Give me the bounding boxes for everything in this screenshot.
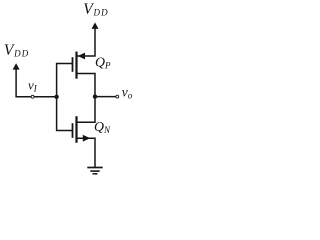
wire: QP drain lead down to output node xyxy=(76,74,95,97)
Q_P source arrow (points into device) xyxy=(78,53,85,60)
transistor Q_P (PMOS) xyxy=(73,52,86,79)
Q_N channel bar xyxy=(75,116,77,143)
wire: top VDD supply lead into QP source lead xyxy=(76,24,95,56)
wire: input terminal to gate junction xyxy=(34,96,57,98)
wire: output node to terminal xyxy=(95,96,116,98)
node: output terminal circle xyxy=(116,95,119,98)
Q_P gate bar xyxy=(72,57,74,72)
wire: QN drain lead up to output node xyxy=(76,97,95,123)
power VDD arrow (left supply) xyxy=(13,63,20,69)
transistor Q_N (NMOS) xyxy=(73,116,91,143)
ground xyxy=(87,168,102,174)
node: output junction dot xyxy=(93,94,97,98)
Q_N gate bar xyxy=(72,123,74,138)
Q_P channel bar xyxy=(75,52,77,79)
wire: gate bus with stubs to QP gate and QN gate xyxy=(57,64,73,131)
node: input terminal circle xyxy=(31,95,34,98)
Q_N source arrow (points out of device) xyxy=(83,135,90,142)
wire: QN source lead down to ground xyxy=(76,138,95,167)
power VDD arrow (top supply) xyxy=(92,22,99,29)
wire: left VDD supply lead down to input wire and right to gate junction xyxy=(16,65,31,97)
node: input junction dot xyxy=(54,95,58,99)
